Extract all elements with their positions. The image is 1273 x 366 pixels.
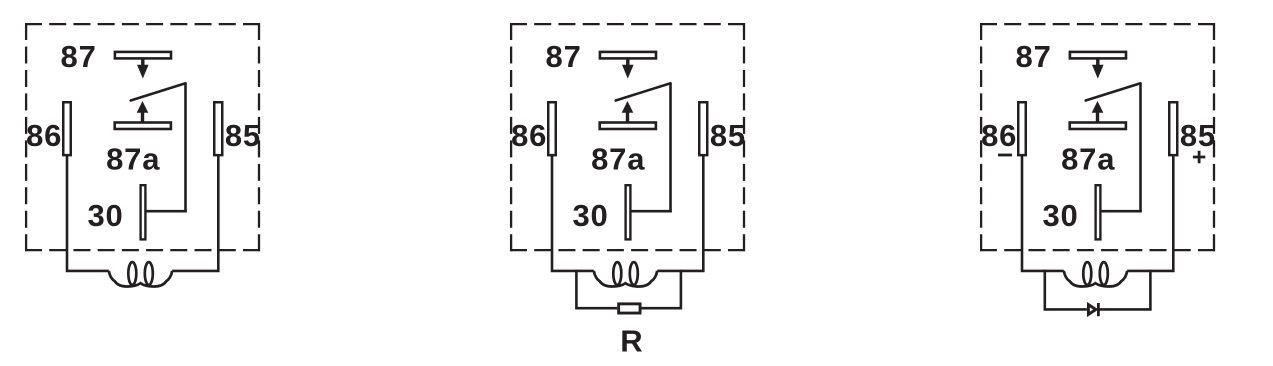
relay K1 (plain relay) <box>25 23 261 287</box>
svg-text:30: 30 <box>572 198 608 233</box>
relay K2 case dashed outline left <box>510 23 512 251</box>
wire from resistor to coil right leg (K2) <box>642 270 681 309</box>
wire from pin 86 down to coil (K1) <box>67 155 109 271</box>
relay coil (K1) <box>109 271 172 287</box>
relay K2 case dashed outline right <box>743 23 745 251</box>
switch armature (K1) <box>131 83 186 100</box>
relay coil (K3) <box>1064 271 1127 287</box>
wire from armature down to pin 30 branch (K3) <box>1139 83 1142 212</box>
svg-text:87: 87 <box>61 39 97 74</box>
relay K3 (relay with parallel diode) <box>980 23 1216 316</box>
svg-text:87a: 87a <box>591 142 645 177</box>
wire from armature down to pin 30 branch (K2) <box>669 83 672 212</box>
relay coil (K2) <box>594 271 657 287</box>
svg-text:87: 87 <box>1016 39 1052 74</box>
contact 87a terminal bar (K3) <box>1070 123 1126 130</box>
svg-text:86: 86 <box>26 118 62 153</box>
wire from coil left leg down to diode (K3) <box>1045 270 1087 310</box>
pin 85 terminal (K3) <box>1169 102 1177 155</box>
diode D (suppression diode) anode triangle <box>1088 305 1096 315</box>
svg-text:30: 30 <box>87 198 123 233</box>
pin 30 terminal (K1) <box>141 185 146 239</box>
wire from coil up to pin 85 (K1) <box>172 155 218 271</box>
wire from coil left leg down to resistor (K2) <box>576 270 617 309</box>
wire from pin 86 down to coil (K2) <box>552 155 594 271</box>
plus polarity mark at pin 85 (K3) <box>1193 151 1205 164</box>
pin 85 terminal (K2) <box>699 102 707 155</box>
contact 87a terminal bar (K1) <box>115 123 171 130</box>
wire from armature down to pin 30 branch (K1) <box>184 83 187 212</box>
relay K1 case dashed outline bottom <box>25 249 260 251</box>
pin 86 terminal (K2) <box>548 102 556 155</box>
wire from pin 86 down to coil (K3) <box>1022 155 1064 271</box>
pin 85 terminal (K1) <box>214 102 222 155</box>
wire from pin 30 to armature drop (K3) <box>1101 210 1142 213</box>
svg-text:87a: 87a <box>1061 142 1115 177</box>
switch armature (K2) <box>616 83 671 100</box>
svg-text:85: 85 <box>225 118 261 153</box>
arrow from contact 87a toward armature (K1) <box>141 112 144 122</box>
relay K2 case dashed outline top <box>510 23 745 25</box>
arrow from contact 87 toward armature (K3) <box>1096 58 1099 67</box>
diode D cathode bar <box>1097 303 1100 316</box>
svg-text:87a: 87a <box>106 142 160 177</box>
relay K3 case dashed outline bottom <box>980 249 1215 251</box>
svg-text:86: 86 <box>981 118 1017 153</box>
wire from pin 30 to armature drop (K2) <box>631 210 672 213</box>
pin 86 terminal (K3) <box>1018 102 1026 155</box>
pin 30 terminal (K2) <box>626 185 631 239</box>
relay K2 case dashed outline bottom <box>510 249 745 251</box>
svg-text:85: 85 <box>1180 118 1216 153</box>
svg-text:R: R <box>620 324 643 359</box>
contact 87a terminal bar (K2) <box>600 123 656 130</box>
arrow from contact 87 toward armature (K2) <box>626 58 629 67</box>
svg-text:85: 85 <box>710 118 746 153</box>
svg-text:86: 86 <box>511 118 547 153</box>
svg-text:87: 87 <box>546 39 582 74</box>
wire from pin 30 to armature drop (K1) <box>146 210 187 213</box>
minus polarity mark at pin 86 (K3) <box>998 154 1012 157</box>
wire from coil up to pin 85 (K2) <box>657 155 703 271</box>
wire from coil up to pin 85 (K3) <box>1127 155 1173 271</box>
resistor R (suppression resistor) <box>619 304 640 313</box>
relay K3 case dashed outline top <box>980 23 1215 25</box>
arrow from contact 87a toward armature (K2) <box>626 112 629 122</box>
contact 87 terminal bar (K3) <box>1070 52 1126 59</box>
svg-text:30: 30 <box>1042 198 1078 233</box>
contact 87 terminal bar (K2) <box>600 52 656 59</box>
contact 87 terminal bar (K1) <box>115 52 171 59</box>
wire from diode to coil right leg (K3) <box>1098 270 1151 310</box>
relay K3 case dashed outline left <box>980 23 982 251</box>
relay K1 case dashed outline top <box>25 23 260 25</box>
relay K3 case dashed outline right <box>1213 23 1215 251</box>
relay K1 case dashed outline left <box>25 23 27 251</box>
arrow from contact 87a toward armature (K3) <box>1096 112 1099 122</box>
pin 30 terminal (K3) <box>1096 185 1101 239</box>
relay K2 (relay with parallel resistor) <box>510 23 746 359</box>
switch armature (K3) <box>1086 83 1141 100</box>
arrow from contact 87 toward armature (K1) <box>141 58 144 67</box>
relay K1 case dashed outline right <box>258 23 260 251</box>
pin 86 terminal (K1) <box>63 102 71 155</box>
